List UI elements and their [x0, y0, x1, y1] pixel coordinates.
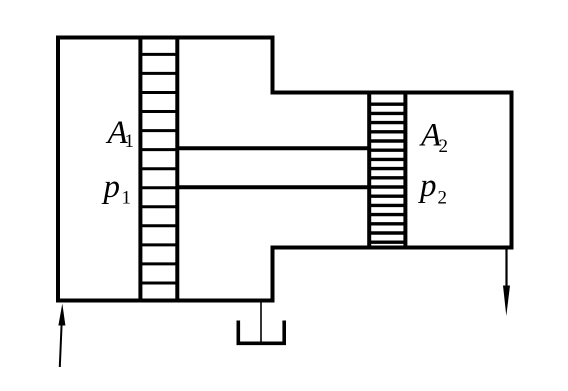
- input arrow (up, bottom left): [58, 304, 65, 368]
- svg-text:p: p: [102, 169, 121, 205]
- piston 2 hatch lines: [369, 104, 405, 242]
- connecting rod lower line: [177, 185, 369, 189]
- output arrow (down, right side): [503, 249, 510, 316]
- piston 1 right edge: [175, 36, 179, 302]
- support stem (thin line from cylinder bottom into bracket): [260, 301, 262, 343]
- svg-text:p: p: [418, 168, 437, 204]
- svg-text:2: 2: [438, 188, 448, 209]
- cylinder body outline (stepped): [58, 38, 512, 301]
- connecting rod upper line: [177, 146, 369, 150]
- piston 2 right edge: [403, 91, 407, 249]
- svg-text:1: 1: [122, 188, 132, 209]
- piston 1 left edge: [138, 36, 142, 302]
- piston 2 left edge: [367, 91, 371, 249]
- svg-text:1: 1: [125, 131, 135, 152]
- svg-text:2: 2: [439, 136, 449, 157]
- support bracket (U shape): [238, 321, 284, 344]
- piston 1 hatch lines: [140, 54, 177, 283]
